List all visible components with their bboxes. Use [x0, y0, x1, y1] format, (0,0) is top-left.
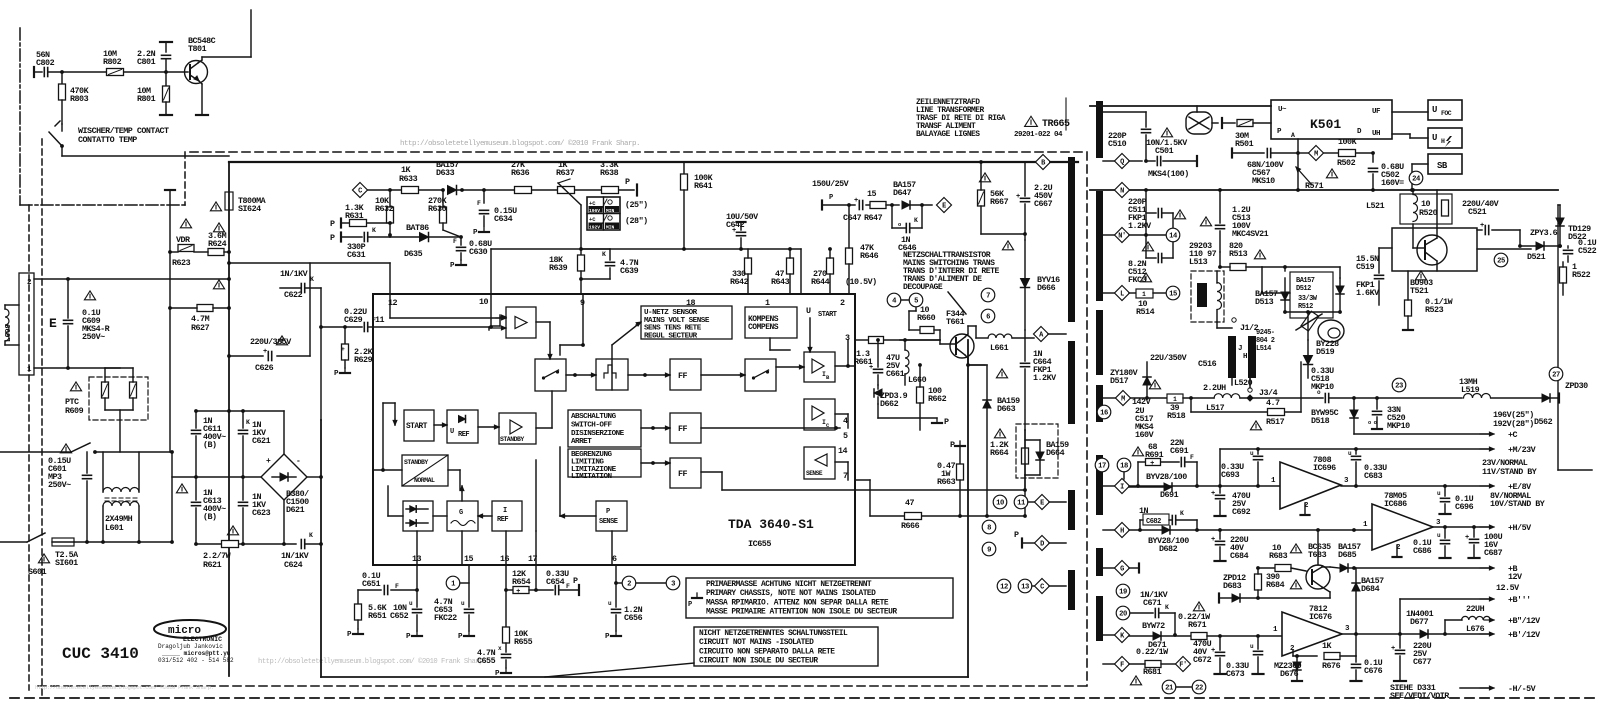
- svg-text:+: +: [341, 346, 345, 353]
- svg-text:5: 5: [914, 298, 918, 306]
- outer dashed boundary left: [41, 139, 43, 697]
- resistor R647: [870, 202, 886, 209]
- svg-text:C630: C630: [469, 247, 488, 257]
- svg-text:MKP10: MKP10: [1387, 421, 1410, 431]
- svg-text:C691: C691: [1170, 446, 1189, 456]
- svg-text:C692: C692: [1232, 507, 1251, 517]
- svg-text:U: U: [1432, 105, 1437, 115]
- svg-text:ELECTRONIC: ELECTRONIC: [183, 636, 222, 643]
- varistor R501 30M: [1221, 118, 1223, 128]
- wire base row: [49, 71, 188, 73]
- svg-text:J3/4: J3/4: [1259, 388, 1278, 398]
- circled 9: [982, 542, 996, 556]
- svg-text:C677: C677: [1413, 657, 1432, 667]
- svg-text:E: E: [942, 203, 946, 211]
- svg-text:SENSE: SENSE: [806, 470, 823, 477]
- svg-text:SB: SB: [1437, 161, 1448, 171]
- circled node 3: [636, 582, 666, 584]
- svg-text:+C: +C: [1508, 430, 1518, 440]
- svg-text:33/3W: 33/3W: [1298, 295, 1318, 303]
- wire sw2 to IB: [776, 366, 804, 368]
- capacitor C512: [1142, 242, 1153, 251]
- inductor L660: [905, 350, 909, 374]
- svg-text:11: 11: [1017, 500, 1026, 508]
- transformer primary bar 2: [1068, 341, 1075, 424]
- wire IB out pin3: [835, 365, 855, 367]
- svg-text:10V/STAND BY: 10V/STAND BY: [1490, 499, 1546, 509]
- svg-text:P: P: [330, 219, 335, 229]
- svg-text:G: G: [459, 509, 463, 517]
- service adjust box: [587, 197, 620, 230]
- node M diamond k501: [1298, 152, 1308, 154]
- svg-text:K: K: [602, 251, 606, 258]
- wire pin6 down: [615, 565, 617, 607]
- capacitor C692: [1216, 494, 1225, 496]
- pulse shaper block: [596, 359, 628, 390]
- svg-text:CUC 3410: CUC 3410: [62, 645, 139, 663]
- wire 279 to 229 join: [227, 277, 231, 281]
- svg-text:(B): (B): [203, 512, 217, 522]
- wire R637 wiper down: [558, 183, 581, 205]
- capacitor C802: [33, 67, 35, 77]
- wire pin17 internal: [535, 531, 537, 565]
- circled 7: [981, 288, 995, 302]
- capacitor C639: [581, 248, 610, 250]
- svg-text:+: +: [1480, 222, 1484, 230]
- wire to bridge: [171, 452, 173, 542]
- svg-text:R644: R644: [811, 277, 830, 287]
- capacitor C621: [242, 411, 244, 428]
- KOMPENS block: [745, 307, 797, 338]
- svg-text:2.2UH: 2.2UH: [1203, 383, 1226, 393]
- resistor R627: [197, 305, 213, 312]
- potentiometer R512: [1301, 311, 1319, 331]
- wire K501 UH out: [1392, 133, 1410, 135]
- svg-text:T801: T801: [188, 44, 207, 54]
- svg-text:F: F: [395, 583, 399, 590]
- wire kompens down: [769, 338, 771, 350]
- capacitor C502: [1372, 153, 1374, 162]
- svg-text:P: P: [688, 601, 692, 609]
- transformer secondary bar 5: [1096, 455, 1103, 515]
- transistor T801: [185, 61, 208, 84]
- svg-text:(B): (B): [203, 440, 217, 450]
- svg-text:MKS10: MKS10: [1252, 176, 1275, 186]
- svg-text:C696: C696: [1455, 502, 1474, 512]
- capacitor C655: [502, 653, 511, 655]
- ABSCHALTUNG block: [568, 410, 641, 447]
- wire 7808 out +E/8V: [1341, 485, 1489, 487]
- svg-text:I: I: [503, 507, 507, 515]
- svg-text:SEE/VEDI/VOIR: SEE/VEDI/VOIR: [1390, 691, 1450, 701]
- svg-text:192V: 192V: [589, 225, 600, 231]
- wire K501 A down: [1297, 139, 1299, 153]
- svg-text:R662: R662: [928, 394, 947, 404]
- svg-text:14: 14: [838, 446, 848, 456]
- circled 24: [1409, 171, 1423, 185]
- svg-text:D685: D685: [1338, 550, 1357, 560]
- fuse SI624: [225, 192, 233, 210]
- svg-text:K: K: [246, 419, 250, 426]
- yoke connector symbol: [1318, 320, 1344, 342]
- svg-text:D621: D621: [286, 505, 305, 515]
- capacitor C567: [1232, 152, 1264, 154]
- svg-text:L661: L661: [990, 343, 1009, 353]
- svg-text:C673: C673: [1226, 669, 1245, 679]
- outer dashed bottom line: [10, 697, 1600, 699]
- svg-text:MKS4(100): MKS4(100): [1148, 169, 1189, 179]
- capacitor C624: [300, 540, 302, 549]
- svg-text:R802: R802: [103, 57, 122, 67]
- svg-text:D662: D662: [880, 399, 899, 409]
- wire right section mid: [1262, 292, 1290, 294]
- solid enclosure left rail: [228, 162, 230, 676]
- node Q diamond: [1115, 154, 1130, 169]
- svg-text:C682: C682: [1146, 518, 1161, 526]
- STANDBY NORMAL block: [402, 455, 448, 486]
- svg-text:16: 16: [1100, 410, 1108, 418]
- warning triangle TR665: [1025, 116, 1038, 126]
- svg-text:C: C: [1040, 584, 1044, 592]
- diode D635: [420, 233, 429, 242]
- wire 78M05 out +H/5V: [1433, 526, 1489, 528]
- svg-text:C652: C652: [390, 611, 409, 621]
- svg-text:14: 14: [1169, 233, 1178, 241]
- diode D664 BA159: [1036, 452, 1044, 460]
- node F2 diamond: [1176, 657, 1191, 672]
- svg-text:D562: D562: [1534, 417, 1553, 427]
- svg-text:+: +: [1465, 534, 1469, 542]
- svg-text:CONTATTO TEMP: CONTATTO TEMP: [78, 135, 137, 145]
- I REF block: [492, 501, 522, 531]
- wire pin16 down: [505, 565, 507, 627]
- svg-text:R681: R681: [1143, 667, 1162, 677]
- wire x321 top: [320, 288, 322, 420]
- svg-text:R666: R666: [901, 521, 920, 531]
- capacitor C601: [60, 444, 71, 453]
- svg-text:L660: L660: [908, 375, 927, 385]
- svg-text:L601: L601: [105, 523, 124, 533]
- svg-text:R646: R646: [860, 251, 879, 261]
- switch block 2: [745, 359, 776, 391]
- transformer secondary bar 6: [1096, 548, 1103, 576]
- svg-text:BA157: BA157: [1296, 277, 1315, 285]
- svg-text:Q: Q: [1120, 159, 1124, 167]
- svg-text:Dragoljub Jankovic: Dragoljub Jankovic: [158, 643, 223, 650]
- svg-text:R513: R513: [1229, 249, 1248, 259]
- svg-text:1K: 1K: [1322, 641, 1333, 651]
- R512 box region: [1290, 272, 1333, 318]
- wire pin9 internal: [582, 294, 584, 345]
- resistor R654: [506, 589, 513, 591]
- wire pin13 down: [416, 565, 418, 590]
- top rail right section: [1090, 105, 1271, 107]
- P D diamond row: [1021, 539, 1023, 548]
- node I diamond: [1115, 479, 1130, 494]
- svg-text:15: 15: [1169, 291, 1177, 299]
- svg-text:192V(28"): 192V(28"): [1493, 419, 1534, 429]
- svg-text:REF: REF: [458, 431, 469, 439]
- diode D682 BYV28/100: [1162, 526, 1170, 534]
- svg-text:o o: o o: [1368, 419, 1378, 426]
- wire amp1 out: [536, 321, 550, 323]
- transistor BU903 T521 box: [1392, 228, 1477, 271]
- bridge mid row: [172, 476, 261, 478]
- svg-text:100K: 100K: [1338, 137, 1358, 147]
- svg-text:H: H: [1243, 353, 1247, 361]
- wire row to IC pin12 col: [229, 262, 390, 264]
- rail to L519: [1330, 397, 1462, 399]
- svg-text:MKP10: MKP10: [1311, 382, 1334, 392]
- R571 arrow: [1296, 167, 1312, 185]
- svg-text:_____ micros@ptt.yu: _____ micros@ptt.yu: [161, 650, 231, 657]
- wire sense in pin7: [835, 461, 848, 463]
- svg-text:SI601: SI601: [55, 558, 78, 568]
- node F diamond: [1115, 657, 1130, 672]
- main primary-section dashed box bottom: [38, 685, 1087, 687]
- wire top caps row: [196, 410, 284, 412]
- svg-text:160V=: 160V=: [1381, 178, 1404, 188]
- svg-text:C624: C624: [284, 560, 303, 570]
- svg-text:IC696: IC696: [1313, 463, 1336, 473]
- resistor R676 1K: [1292, 650, 1294, 656]
- wire pulse to FF1: [628, 374, 670, 376]
- L513 dashed box: [1191, 271, 1224, 322]
- transformer secondary bar 7: [1096, 596, 1103, 641]
- svg-text:R501: R501: [1235, 139, 1254, 149]
- svg-text:D521: D521: [1527, 252, 1546, 262]
- potentiometer R637: [558, 187, 575, 194]
- svg-text:I: I: [1120, 484, 1124, 492]
- PTC resistor a: [102, 382, 109, 398]
- svg-text:+: +: [854, 197, 858, 205]
- svg-text:12: 12: [1000, 584, 1008, 592]
- wire mains top row: [34, 278, 229, 280]
- svg-text:R633: R633: [399, 174, 418, 184]
- svg-text:9245-: 9245-: [1256, 329, 1275, 337]
- net -H/-5V: [1460, 687, 1489, 689]
- svg-text:ABSCHALTUNG: ABSCHALTUNG: [571, 413, 617, 421]
- svg-text:-H/-5V: -H/-5V: [1508, 684, 1537, 694]
- svg-text:C623: C623: [252, 508, 271, 518]
- resistor R803: [61, 72, 63, 84]
- resistor R514 1: [1129, 292, 1136, 294]
- svg-text:-: -: [296, 457, 300, 466]
- resistor R502: [1324, 152, 1338, 154]
- svg-text:R627: R627: [191, 323, 210, 333]
- svg-text:D635: D635: [404, 249, 423, 259]
- resistor R642: [745, 258, 752, 274]
- PRIMAERMASSE text box: [686, 578, 953, 618]
- resistor R651: [357, 590, 359, 604]
- svg-text:SENSE: SENSE: [599, 518, 618, 526]
- capacitor C646: [890, 203, 894, 207]
- svg-text:C629: C629: [344, 315, 363, 325]
- amp block IB: [804, 352, 835, 382]
- svg-text:K: K: [372, 227, 376, 234]
- svg-text:2: 2: [627, 581, 631, 589]
- svg-text:R631: R631: [345, 211, 364, 221]
- P terminal mid: [877, 404, 879, 418]
- svg-text:FF: FF: [678, 371, 688, 381]
- svg-text:D512: D512: [1296, 285, 1311, 293]
- wire B1/12V output: [1445, 633, 1489, 635]
- switch contact wiper: [61, 124, 63, 131]
- svg-text:C656: C656: [624, 613, 643, 623]
- svg-text:12V: 12V: [1508, 572, 1523, 582]
- U-NETZ SENSOR block: [641, 306, 732, 339]
- svg-text:PRIMARY CHASSIS, NOTE NOT MAI: PRIMARY CHASSIS, NOTE NOT MAINS ISOLATED: [706, 589, 876, 598]
- svg-text:MASSA RPIMARIO. ATTENZ NON SE: MASSA RPIMARIO. ATTENZ NON SEPAR DALLA R…: [706, 598, 889, 607]
- svg-text:D663: D663: [997, 404, 1016, 414]
- svg-text:12.5V: 12.5V: [1496, 583, 1520, 593]
- svg-text:0.22/1W: 0.22/1W: [1136, 647, 1169, 657]
- svg-text:FOC: FOC: [1441, 110, 1452, 117]
- PTC R609 dashed box: [89, 377, 148, 420]
- wire SB: [1412, 163, 1428, 165]
- wire begrenzung to FF3: [641, 462, 670, 464]
- wire 490 row: [1023, 488, 1027, 492]
- svg-text:UH: UH: [1372, 130, 1380, 138]
- wire A col down: [1024, 330, 1026, 361]
- svg-text:+: +: [732, 227, 736, 235]
- node H diamond: [1115, 523, 1130, 538]
- capacitor C684: [1216, 540, 1225, 542]
- svg-text:R801: R801: [137, 94, 156, 104]
- svg-text:R684: R684: [1266, 580, 1285, 590]
- BEGRENZUNG block: [568, 449, 641, 477]
- wire pin16 internal: [505, 531, 507, 565]
- svg-text:C510: C510: [1108, 139, 1127, 149]
- wire FF1 to sw2: [701, 374, 745, 376]
- svg-text:MKC4SV21: MKC4SV21: [1232, 229, 1269, 239]
- svg-text:H: H: [1441, 138, 1445, 145]
- svg-text:R637: R637: [556, 168, 575, 178]
- svg-text:031/512 402 - 514 582: 031/512 402 - 514 582: [158, 657, 234, 664]
- svg-text:D633: D633: [436, 168, 455, 178]
- wire K501 UF out: [1392, 111, 1428, 113]
- svg-text:22: 22: [1195, 685, 1203, 693]
- svg-text:http://obsoletetellyemuseum.bl: http://obsoletetellyemuseum.blogspot.com…: [400, 139, 640, 148]
- svg-text:DECOUPAGE: DECOUPAGE: [903, 283, 943, 292]
- svg-text:REGUL SECTEUR: REGUL SECTEUR: [644, 332, 698, 340]
- capacitor C652: [416, 590, 418, 607]
- svg-text:R639: R639: [549, 263, 568, 273]
- svg-text:R632: R632: [375, 204, 394, 214]
- svg-text:1N/1KV: 1N/1KV: [280, 269, 309, 279]
- svg-text:MASSE PRIMAIRE ATTENTION NON: MASSE PRIMAIRE ATTENTION NON ISOLE DU SE…: [706, 608, 897, 617]
- svg-text:BYV28/100: BYV28/100: [1146, 472, 1187, 482]
- wire pin13 internal: [416, 531, 418, 565]
- wire dd to G: [433, 515, 447, 517]
- capacitor C654: [536, 589, 553, 591]
- capacitor C651: [391, 589, 417, 591]
- wire psense left: [560, 515, 596, 517]
- wire abschaltung to FF2: [641, 427, 670, 429]
- svg-text:T661: T661: [946, 317, 965, 327]
- capacitor C513: [1219, 190, 1221, 223]
- rail y190: [1090, 189, 1558, 191]
- wire pin11 internal: [373, 326, 489, 328]
- svg-text:+: +: [266, 457, 271, 466]
- capacitor C611: [195, 411, 197, 428]
- svg-text:C654: C654: [546, 577, 565, 587]
- L521 R520 box: [1400, 194, 1452, 224]
- transformer secondary bar top: [1096, 101, 1103, 158]
- svg-text:R623: R623: [172, 258, 191, 268]
- svg-text:250V~: 250V~: [48, 480, 71, 490]
- svg-text:http://obsoletetellyemuseum.bl: http://obsoletetellyemuseum.blogspot.com…: [258, 657, 487, 666]
- wire M rail to 23V: [1219, 449, 1221, 486]
- node M diamond mid: [1116, 391, 1131, 406]
- svg-text:11V/STAND BY: 11V/STAND BY: [1482, 467, 1538, 477]
- svg-text:F: F: [1190, 454, 1194, 461]
- row H wire to 78M05: [1129, 529, 1372, 531]
- svg-text:C693: C693: [1221, 470, 1240, 480]
- svg-text:http://obsoletetellyemuseum.bl: http://obsoletetellyemuseum.blogspot.com…: [35, 684, 214, 691]
- svg-text:1.2KV: 1.2KV: [1033, 373, 1057, 383]
- resistor R641: [683, 162, 685, 174]
- svg-text:R654: R654: [512, 577, 531, 587]
- capacitor C631: [340, 233, 342, 242]
- wire IC out: [835, 413, 848, 415]
- svg-text:R520: R520: [1419, 208, 1438, 218]
- svg-text:+C: +C: [589, 200, 596, 207]
- L520 winding wires: [1231, 378, 1233, 385]
- inner solid box right edge: [967, 340, 969, 677]
- transformer primary bar 1: [1068, 157, 1075, 322]
- resistor R691 68: [1132, 447, 1143, 456]
- svg-text:1.6KV: 1.6KV: [1356, 288, 1380, 298]
- svg-text:24: 24: [1412, 176, 1421, 184]
- svg-text:IC676: IC676: [1309, 612, 1332, 622]
- STANDBY amp block: [499, 413, 536, 444]
- dashed box R664 D664: [1016, 424, 1058, 478]
- svg-text:22UH: 22UH: [1466, 604, 1485, 614]
- fuse SI601: [0, 541, 27, 543]
- double diode block: [403, 501, 433, 531]
- svg-text:C684: C684: [1230, 551, 1249, 561]
- U H box: [1428, 128, 1462, 148]
- wire pin12 internal: [389, 294, 391, 318]
- wire iref to G: [478, 515, 492, 517]
- svg-text:SENS TENS RETE: SENS TENS RETE: [644, 325, 702, 333]
- svg-text:F: F: [1120, 662, 1124, 670]
- node G diamond: [1115, 561, 1130, 576]
- main primary-section dashed box top: [190, 151, 1087, 153]
- ZPD3.9 D662: [877, 385, 879, 389]
- svg-text:+H/5V: +H/5V: [1508, 523, 1532, 533]
- row I wire to 7808: [1129, 485, 1280, 487]
- svg-text:CIRCUIT NOT MAINS -ISOLATED: CIRCUIT NOT MAINS -ISOLATED: [699, 638, 814, 647]
- node A diamond: [1034, 327, 1049, 342]
- mains cable dash-dot boundary: [19, 28, 21, 205]
- svg-text:IC655: IC655: [748, 539, 771, 549]
- transformer primary bar 3: [1068, 490, 1075, 530]
- svg-text:L513: L513: [1189, 257, 1208, 267]
- svg-text:C671: C671: [1143, 598, 1162, 608]
- wire T683 collector: [1317, 530, 1319, 565]
- diode D663 BA159: [983, 400, 991, 408]
- svg-text:C801: C801: [137, 57, 156, 67]
- svg-text:150U/25V: 150U/25V: [812, 179, 850, 189]
- svg-text:D513: D513: [1255, 297, 1274, 307]
- circled 15: [1166, 286, 1180, 300]
- circled 12 13 C diamond row: [997, 579, 1011, 593]
- resistor R638: [602, 187, 619, 194]
- svg-text:+: +: [263, 348, 267, 356]
- svg-text:VDR: VDR: [176, 235, 191, 245]
